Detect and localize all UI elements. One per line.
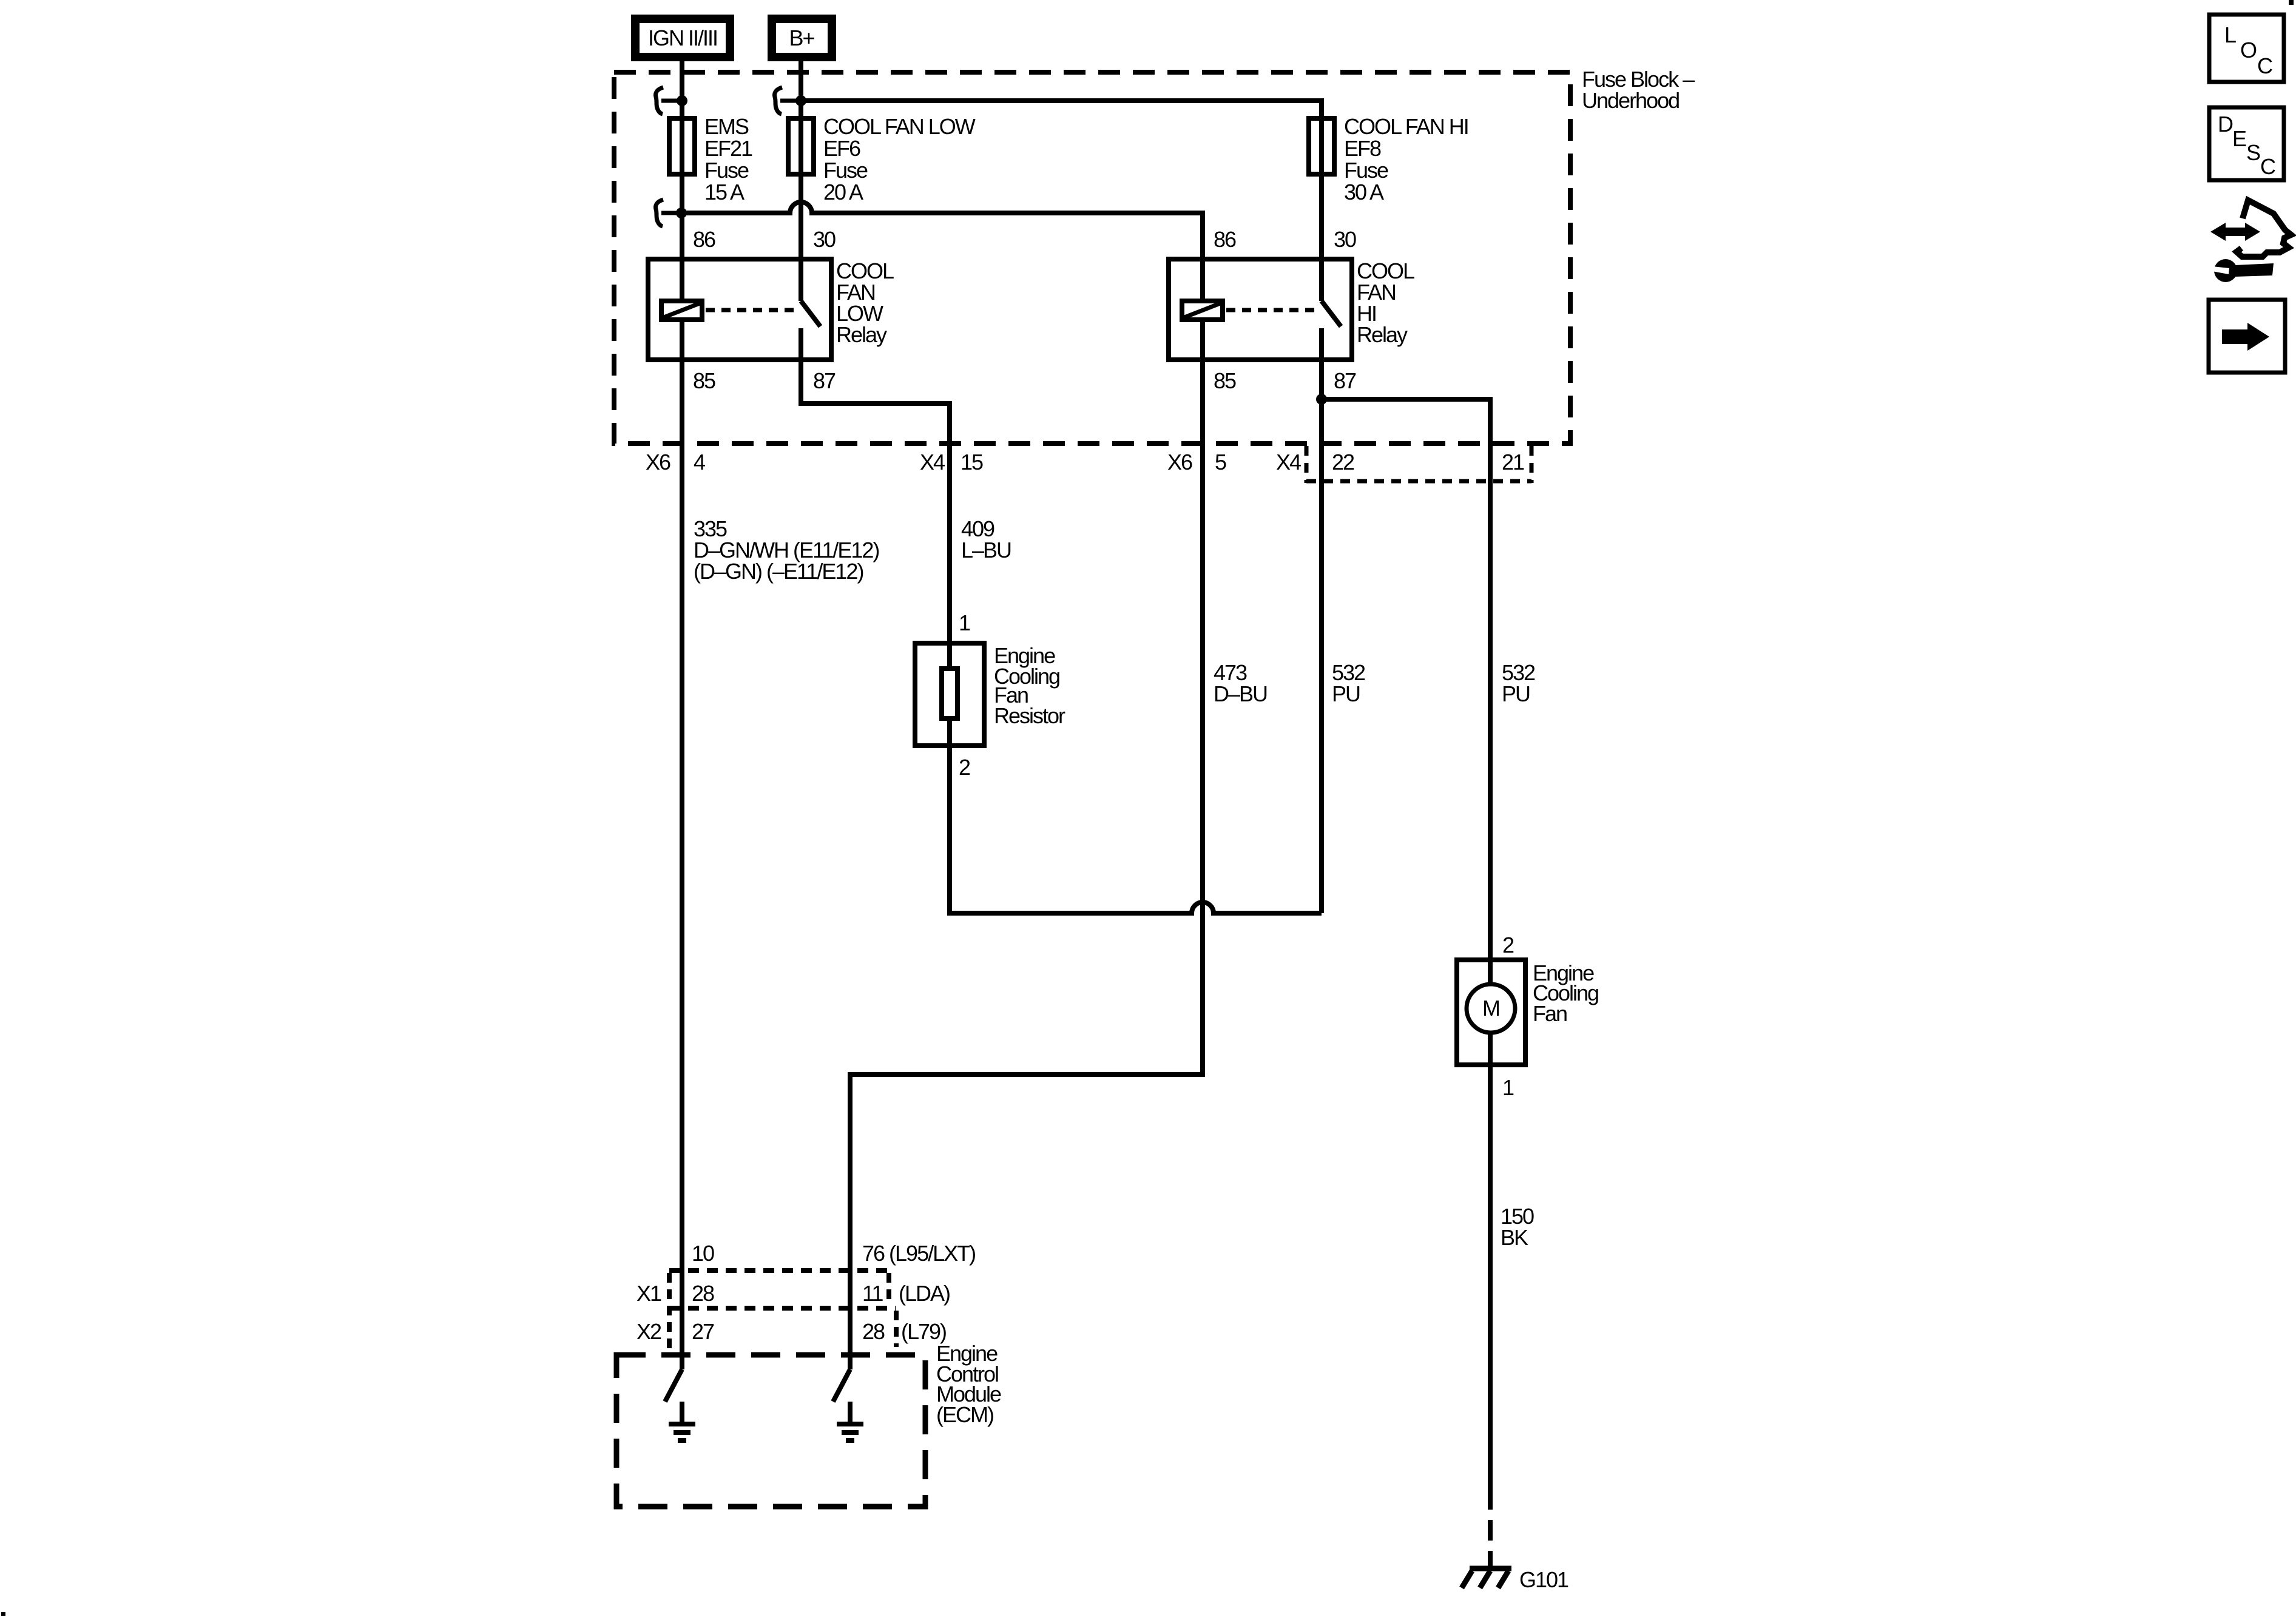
splice stub 2 — [661, 211, 681, 215]
svg-text:22: 22 — [1332, 450, 1354, 474]
svg-text:C: C — [2260, 154, 2275, 179]
svg-text:E: E — [2232, 126, 2246, 151]
svg-text:85: 85 — [1214, 368, 1236, 393]
svg-text:B+: B+ — [789, 25, 814, 50]
svg-text:PU: PU — [1332, 681, 1360, 706]
ground inside ECM left — [669, 1402, 695, 1440]
sidebar diagnostic icon: double arrow — [2210, 200, 2291, 282]
svg-text:Fuse: Fuse — [704, 158, 749, 183]
svg-text:(LDA): (LDA) — [899, 1281, 950, 1306]
relay2 coil — [1182, 301, 1223, 320]
splice stub B+ — [780, 99, 801, 103]
fuse COOL FAN LOW EF6 — [788, 118, 814, 174]
svg-text:87: 87 — [813, 368, 836, 393]
ECM connector dotted row X1 — [669, 1268, 887, 1273]
svg-text:30: 30 — [1334, 227, 1356, 252]
sidebar next-page arrow box — [2209, 300, 2285, 373]
splice dot B+ — [795, 95, 806, 106]
fuse COOL FAN HI EF8 — [1309, 118, 1334, 174]
svg-text:(D–GN) (–E11/E12): (D–GN) (–E11/E12) — [694, 559, 863, 584]
svg-text:30 A: 30 A — [1344, 180, 1384, 204]
svg-text:X4: X4 — [1276, 450, 1301, 474]
wire B+ feed through fuse EF6 to relay1 pin30 — [799, 59, 803, 301]
svg-text:2: 2 — [1502, 933, 1514, 957]
svg-text:PU: PU — [1502, 681, 1530, 706]
svg-text:4: 4 — [694, 450, 705, 474]
relay1 coil-switch dashed link — [706, 308, 794, 312]
relay1 switch blade — [801, 301, 820, 326]
svg-text:76 (L95/LXT): 76 (L95/LXT) — [862, 1241, 975, 1266]
svg-text:X6: X6 — [646, 450, 670, 474]
page mark top-right — [2289, 0, 2294, 5]
svg-text:5: 5 — [1215, 450, 1226, 474]
svg-text:86: 86 — [693, 227, 715, 252]
svg-text:87: 87 — [1334, 368, 1356, 393]
ECM switch pin76 blade — [833, 1369, 850, 1402]
svg-text:IGN II/III: IGN II/III — [648, 25, 717, 50]
svg-text:D–BU: D–BU — [1214, 681, 1267, 706]
relay2 switch contact — [1319, 328, 1324, 360]
svg-text:O: O — [2240, 38, 2257, 62]
junction dot relay2 87 — [1316, 394, 1327, 405]
svg-text:X2: X2 — [636, 1319, 661, 1344]
wire resistor pin2 to circuit 532 (with hop over 473) — [950, 746, 1322, 913]
svg-text:G101: G101 — [1519, 1567, 1568, 1592]
svg-text:EF21: EF21 — [704, 136, 752, 161]
svg-text:Fuse: Fuse — [1344, 158, 1388, 183]
svg-text:Resistor: Resistor — [994, 703, 1065, 728]
connector X4 dotted box (pins 22/21) — [1306, 446, 1531, 483]
splice dot 2 IGN — [676, 208, 687, 218]
splice curl B+ — [775, 87, 783, 114]
svg-text:Relay: Relay — [836, 322, 887, 347]
svg-text:15 A: 15 A — [704, 180, 745, 204]
relay1 switch contact — [799, 328, 803, 360]
fuse EMS EF21 — [669, 118, 695, 174]
svg-text:30: 30 — [813, 227, 836, 252]
engine cooling fan motor box — [1457, 960, 1525, 1065]
engine cooling fan resistor box — [915, 643, 984, 746]
resistor element — [942, 669, 957, 718]
fuse block underhood dashed box — [614, 72, 1570, 444]
relay2 coil-switch dashed link — [1226, 308, 1314, 312]
svg-text:85: 85 — [693, 368, 715, 393]
svg-text:(ECM): (ECM) — [936, 1402, 993, 1427]
svg-text:Relay: Relay — [1357, 322, 1408, 347]
svg-text:D: D — [2218, 112, 2233, 137]
wire 150 BK dashed to ground — [1488, 1489, 1493, 1568]
power feed box B+ — [768, 15, 836, 61]
wire B+ splice to COOL FAN HI fuse EF8, relay2 pin30 — [801, 101, 1322, 301]
svg-text:X6: X6 — [1167, 450, 1192, 474]
svg-text:(L79): (L79) — [901, 1319, 946, 1344]
splice curl IGN — [656, 87, 664, 114]
page mark bottom-left — [1, 1612, 5, 1616]
svg-text:EF6: EF6 — [823, 136, 860, 161]
svg-text:86: 86 — [1214, 227, 1236, 252]
svg-text:28: 28 — [692, 1281, 714, 1306]
relay1 coil — [661, 301, 702, 320]
wire relay2 pin87 circuit 532 down to junction and resistor line — [1319, 360, 1324, 913]
wire IGN feed through fuse EF21, relay1 coil, circuit 335 to ECM pin10 — [680, 59, 684, 1369]
svg-text:X4: X4 — [920, 450, 945, 474]
wire splice2 to relay2 coil 86, circuit 473 down and left to ECM (with hop over EF6 wire) — [681, 202, 1203, 1369]
svg-text:20 A: 20 A — [823, 180, 863, 204]
svg-text:Fan: Fan — [1533, 1001, 1567, 1026]
svg-text:L: L — [2224, 22, 2236, 47]
svg-text:11: 11 — [862, 1281, 883, 1306]
ECM dashed box — [616, 1355, 925, 1507]
ground G101 symbol — [1462, 1568, 1511, 1588]
ECM connector dotted ticks — [669, 1273, 896, 1351]
COOL FAN HI relay box — [1169, 259, 1352, 360]
svg-text:COOL FAN HI: COOL FAN HI — [1344, 114, 1468, 139]
svg-text:27: 27 — [692, 1319, 714, 1344]
sidebar DESC box — [2209, 107, 2284, 180]
power feed box IGN II/III — [631, 15, 734, 61]
splice curl 2 — [656, 200, 664, 226]
motor symbol M — [1467, 984, 1515, 1033]
ECM connector dotted row X2 — [669, 1306, 896, 1311]
svg-text:C: C — [2257, 53, 2272, 78]
svg-text:EMS: EMS — [704, 114, 749, 139]
svg-text:M: M — [1482, 996, 1499, 1021]
svg-text:21: 21 — [1502, 450, 1524, 474]
svg-text:15: 15 — [961, 450, 983, 474]
splice stub IGN — [661, 99, 682, 103]
svg-text:2: 2 — [959, 755, 970, 780]
wire relay1 pin87 to resistor pin1 circuit 409 — [801, 360, 950, 746]
svg-text:Underhood: Underhood — [1582, 88, 1679, 113]
svg-text:S: S — [2246, 140, 2260, 165]
wire junction to engine cooling fan circuit 532 — [1322, 399, 1490, 1489]
ECM switch pin10 blade — [665, 1369, 682, 1402]
sidebar diagnostic icon: wrench — [2214, 259, 2237, 282]
relay2 switch blade — [1322, 301, 1341, 326]
ground inside ECM right — [837, 1402, 863, 1440]
splice dot IGN — [677, 95, 687, 106]
sidebar diagnostic icon: part outline — [2237, 200, 2291, 257]
svg-text:28: 28 — [862, 1319, 885, 1344]
svg-text:EF8: EF8 — [1344, 136, 1381, 161]
svg-text:COOL FAN LOW: COOL FAN LOW — [823, 114, 976, 139]
svg-text:10: 10 — [692, 1241, 714, 1266]
svg-text:X1: X1 — [636, 1281, 661, 1306]
svg-text:Fuse: Fuse — [823, 158, 868, 183]
svg-text:BK: BK — [1501, 1225, 1528, 1250]
sidebar LOC box — [2209, 15, 2284, 82]
svg-text:1: 1 — [959, 610, 970, 635]
COOL FAN LOW relay box — [648, 259, 831, 360]
svg-text:1: 1 — [1502, 1075, 1514, 1100]
svg-text:L–BU: L–BU — [961, 538, 1011, 562]
